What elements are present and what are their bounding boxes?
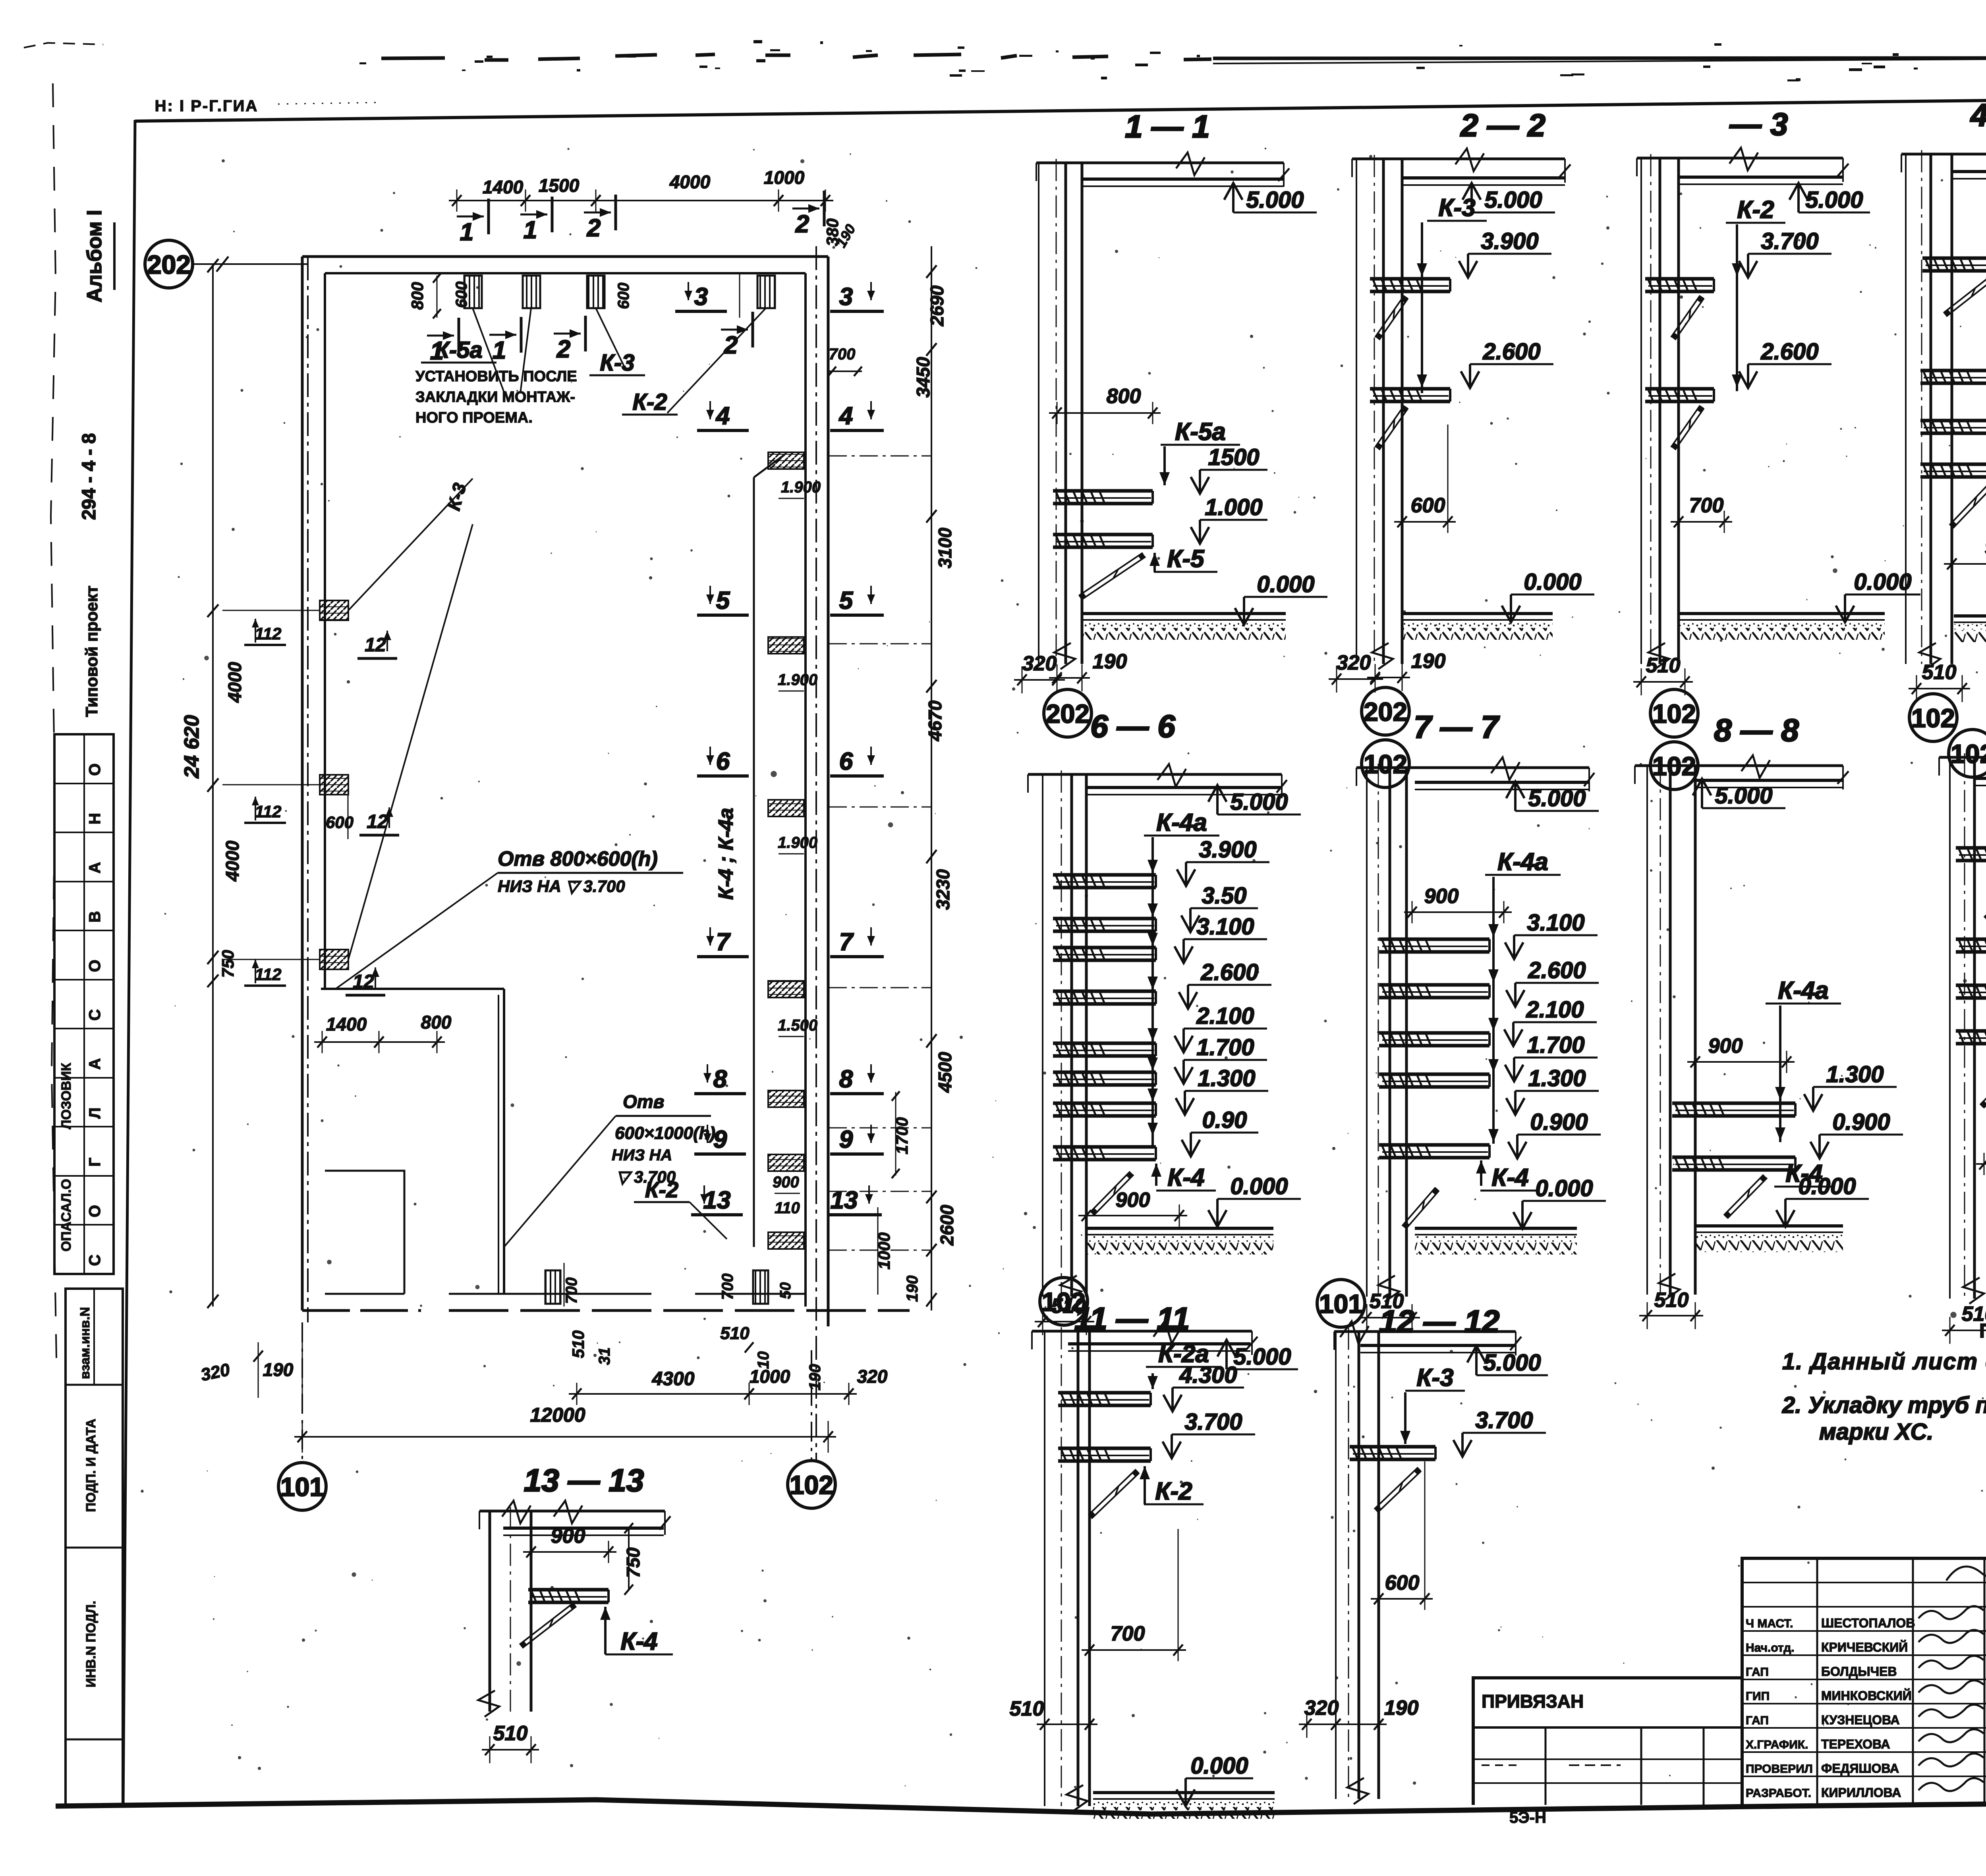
svg-text:3230: 3230 [933,869,953,910]
section 2-2 axis circle 202 [1362,687,1409,735]
svg-text:294 - 4 - 8: 294 - 4 - 8 [79,433,100,520]
svg-text:800: 800 [421,1012,452,1033]
section 1-1 bottom dimension 320 [1014,679,1065,681]
section 8-8 ceiling beam line [1635,764,1843,767]
svg-text:510: 510 [1010,1697,1044,1720]
plan: section cut marks below top wall [458,318,460,353]
section 7-7 slab [1415,781,1589,784]
section 4-4 bracket bar [1920,369,1986,372]
svg-text:190: 190 [1093,650,1127,673]
scan speckles [1225,1056,1228,1060]
svg-text:202: 202 [1046,699,1090,728]
svg-text:ОПАСАЛ.О: ОПАСАЛ.О [59,1179,74,1251]
svg-text:13: 13 [703,1187,731,1214]
svg-text:1.300: 1.300 [1528,1065,1586,1091]
svg-text:1500: 1500 [1208,444,1259,470]
plan: axis circle 202 [145,240,193,288]
svg-text:2 — 2: 2 — 2 [1460,108,1545,143]
section 3-3 slab [1679,176,1843,179]
svg-text:Н: I Р-Г.ГИА: Н: I Р-Г.ГИА [155,97,259,115]
svg-text:К-3: К-3 [1416,1364,1453,1392]
svg-text:ЛОЗОВИК: ЛОЗОВИК [59,1063,74,1129]
svg-text:102: 102 [1951,739,1986,768]
section 11-11 bottom dimension 510 [1037,1724,1097,1725]
svg-text:Ч МАСТ.: Ч МАСТ. [1746,1617,1793,1630]
section 4-4 ground hatch [1954,614,1986,618]
svg-text:2.100: 2.100 [1526,997,1584,1023]
svg-text:Типовой проект: Типовой проект [82,586,101,717]
svg-text:К-4: К-4 [1167,1164,1204,1191]
section 2-2 slab [1402,176,1565,179]
plan: left wall [301,257,304,1310]
svg-text:А: А [86,1058,104,1070]
svg-text:8: 8 [839,1065,853,1093]
svg-text:12000: 12000 [530,1404,585,1426]
section 11-11 leader arrow up [1144,1466,1146,1504]
section 2-2 axis circle 102 [1362,740,1409,787]
svg-text:ТЕРЕХОВА: ТЕРЕХОВА [1821,1737,1890,1751]
section 12-12 leader arrow line [1404,1392,1406,1444]
svg-text:750: 750 [623,1547,643,1578]
plan: bottom wall plates [545,1270,560,1304]
svg-text:— 3: — 3 [1729,106,1788,142]
svg-text:9: 9 [839,1126,853,1153]
section 12-12 bracket bar [1350,1445,1435,1449]
svg-text:101: 101 [280,1472,324,1502]
section 12-12 ceiling beam line [1334,1330,1516,1333]
svg-text:1400: 1400 [483,177,524,197]
section 8-8 leader arrow line [1779,1006,1781,1142]
section 6-6 bracket bar [1053,946,1156,950]
section 12-12 axis circle 101 [1317,1280,1365,1327]
svg-text:К-5а: К-5а [435,337,482,363]
section 1-1 bottom dimension 190 [1049,677,1090,679]
svg-text:К-2: К-2 [1737,196,1774,224]
section 6-6 bracket bar [1053,1102,1156,1105]
svg-text:1000: 1000 [764,167,805,188]
svg-text:0.900: 0.900 [1832,1109,1890,1135]
svg-text:С: С [86,1255,104,1266]
section 11-11 bracket bar [1058,1447,1151,1450]
svg-text:700: 700 [719,1274,736,1300]
svg-text:3.100: 3.100 [1196,914,1254,940]
section 4-4 wall [1905,154,1907,664]
svg-text:4000: 4000 [669,172,711,192]
section 4-4 bracket bar [1920,419,1986,423]
section 3-3 bracket strut [1671,405,1700,447]
sheet frame left border [123,120,135,1805]
svg-text:3100: 3100 [935,527,955,568]
svg-text:700: 700 [829,345,856,363]
section 7-7 bracket strut [1402,1187,1435,1226]
svg-text:102: 102 [1652,699,1696,728]
section 3-3 axis circle 102 [1650,742,1698,789]
svg-text:600: 600 [1385,1571,1420,1594]
section 3-3 ceiling beam line [1637,157,1843,160]
svg-text:К-5: К-5 [1167,545,1205,573]
section 9-9 slab [1974,777,1986,780]
svg-text:3.700: 3.700 [1475,1407,1533,1433]
svg-text:ШЕСТОПАЛОВ: ШЕСТОПАЛОВ [1821,1616,1915,1630]
svg-text:4000: 4000 [222,840,243,882]
stamp bottom boxes (взам.инв., подп. и дата, инв.№) [66,1289,123,1805]
section 1-1 dimension 800 [1049,412,1161,414]
section 7-7 bracket bar [1379,983,1489,987]
section 12-12 bottom dimension 320 [1299,1724,1344,1725]
svg-text:800: 800 [1107,385,1141,408]
section 12-12 dimension 600 [1371,1598,1433,1600]
svg-text:1: 1 [493,337,506,364]
svg-text:0.000: 0.000 [1535,1175,1593,1201]
title block: signature table [1742,1558,1986,1805]
svg-text:5: 5 [839,587,854,614]
svg-text:110: 110 [775,1199,800,1217]
section 13-13 bracket strut [520,1603,574,1644]
section 1-1 wall [1038,163,1039,664]
svg-text:2: 2 [795,210,809,238]
svg-text:К-2: К-2 [632,389,667,415]
title block: signatures squiggles [1918,1606,1984,1619]
svg-text:НИЗ НА: НИЗ НА [612,1146,672,1164]
svg-text:А: А [86,862,104,874]
svg-text:В: В [86,911,104,923]
svg-text:2690: 2690 [927,285,947,326]
svg-text:БОЛДЫЧЕВ: БОЛДЫЧЕВ [1821,1664,1897,1679]
svg-text:5.000: 5.000 [1484,187,1542,213]
svg-text:2.100: 2.100 [1196,1003,1254,1029]
svg-text:3.900: 3.900 [1199,837,1256,863]
svg-text:Отв: Отв [623,1091,664,1112]
svg-text:202: 202 [147,250,191,279]
plan: horizontal leader dash-dot lines to chain [829,455,931,457]
svg-text:1. Данный лист см. совме: 1. Данный лист см. совместно с листом КС… [1782,1349,1986,1374]
svg-text:101: 101 [1319,1289,1363,1318]
svg-text:НИЗ НА ▽ 3.700: НИЗ НА ▽ 3.700 [498,877,625,896]
svg-text:2: 2 [587,214,601,242]
svg-text:5.000: 5.000 [1246,187,1304,213]
svg-text:320: 320 [857,1366,888,1387]
section 13-13 leader arrow up [604,1607,607,1654]
svg-text:5.000: 5.000 [1528,786,1586,811]
section 6-6 bracket bar [1053,917,1156,921]
section 9-9 ceiling beam line [1939,756,1986,759]
svg-text:8: 8 [713,1065,727,1093]
svg-text:УСТАНОВИТЬ ПОСЛЕ: УСТАНОВИТЬ ПОСЛЕ [415,368,577,385]
section 12-12 slab [1360,1344,1516,1347]
plan: left dimension chain 24620 [212,266,214,1307]
svg-text:13 — 13: 13 — 13 [524,1463,644,1498]
svg-text:0.000: 0.000 [1190,1753,1248,1779]
svg-text:1: 1 [524,216,537,244]
svg-text:190: 190 [263,1359,294,1380]
section 7-7 dimension 900 [1404,911,1512,913]
section 6-6 bottom dimension 510 [1035,1321,1094,1322]
svg-text:700: 700 [1689,494,1724,517]
svg-text:2.600: 2.600 [1760,339,1818,365]
section 9-9 bracket strut [1980,1065,1986,1105]
section 11-11 slab [1068,1342,1250,1345]
section 7-7 bracket bar [1379,1073,1489,1076]
section 3-3 bottom dimension 510 [1633,681,1693,683]
section 1-1 slab [1082,178,1284,181]
svg-text:К-2а: К-2а [1158,1340,1209,1368]
section 8-8 ground hatch [1695,1224,1843,1228]
section 9-9 axis circle 102 [1949,730,1986,777]
section 8-8 wall [1646,766,1648,1295]
svg-text:510: 510 [720,1324,750,1343]
svg-text:К-4 ; К-4а: К-4 ; К-4а [715,808,738,900]
svg-text:О: О [86,960,104,972]
svg-text:700: 700 [1111,1622,1145,1645]
title block: привязан box [1473,1678,1742,1805]
svg-text:600: 600 [453,282,470,308]
plan: top wall [302,255,828,258]
section 4-4 bracket strut [1943,274,1986,313]
svg-text:3.700: 3.700 [1184,1409,1242,1435]
svg-text:0.900: 0.900 [1530,1109,1588,1135]
svg-text:102: 102 [1911,703,1955,733]
svg-text:Нач.отд.: Нач.отд. [1746,1641,1795,1654]
svg-text:0.000: 0.000 [1230,1173,1288,1199]
plan: interior partition wall [321,988,504,990]
plan: top dimension row 1400/1500/4000/1000 [449,200,533,201]
plan: axis line from 202 [191,263,308,265]
section 4-4 bracket strut [1949,481,1986,525]
svg-text:202: 202 [1364,697,1407,726]
section 4-4 dimension 900 [1944,563,1986,565]
section 11-11 bracket bar [1058,1391,1151,1395]
section 13-13 bracket bar [528,1588,609,1592]
svg-text:ПРИВЯЗАН: ПРИВЯЗАН [1482,1691,1584,1712]
plan: leader diagonals from left plates to К-3 label [348,479,473,610]
section 1-1 bracket bar [1053,533,1153,537]
svg-text:5.000: 5.000 [1483,1350,1541,1376]
section 9-9 bracket bar [1956,938,1986,941]
svg-text:1500: 1500 [539,175,580,196]
plan: plates along right wall with small dims [768,452,804,469]
svg-text:К-4: К-4 [1491,1164,1528,1191]
svg-text:Л: Л [86,1108,104,1119]
svg-text:5.000: 5.000 [1233,1344,1291,1370]
svg-text:ЗАКЛАДКИ МОНТАЖ-: ЗАКЛАДКИ МОНТАЖ- [415,389,575,405]
svg-text:0.90: 0.90 [1202,1107,1247,1133]
svg-text:190: 190 [904,1276,921,1302]
svg-text:Х.ГРАФИК.: Х.ГРАФИК. [1746,1738,1808,1751]
svg-text:4500: 4500 [935,1052,955,1093]
section 3-3 ground hatch [1679,612,1885,615]
svg-text:5: 5 [716,587,730,614]
section 8-8 bracket strut [1724,1175,1764,1215]
section 1-1 axis circle 202 [1044,689,1092,737]
svg-text:К-4: К-4 [1785,1160,1822,1187]
section 7-7 bracket bar [1379,1143,1489,1147]
svg-text:7: 7 [839,928,854,956]
svg-text:900: 900 [1985,536,1986,559]
svg-text:7: 7 [716,928,731,956]
section 7-7 bracket bar [1379,1031,1489,1035]
svg-text:5.000: 5.000 [1715,783,1772,809]
svg-text:0.000: 0.000 [1257,571,1314,597]
svg-text:600: 600 [1411,494,1445,517]
section 7-7 bracket bar [1379,938,1489,941]
section 6-6 wall [1042,774,1043,1297]
section 9-9 wall [1949,757,1951,1299]
svg-text:3450: 3450 [913,357,933,398]
svg-text:О: О [86,1205,104,1217]
svg-text:МИНКОВСКИЙ: МИНКОВСКИЙ [1821,1689,1912,1703]
svg-text:7 — 7: 7 — 7 [1414,709,1500,745]
section 8-8 bottom dimension 510 [1639,1315,1703,1316]
section 7-7 leader arrow up [1480,1160,1482,1186]
svg-text:2600: 2600 [937,1204,957,1246]
svg-text:2. Укладку труб производи: 2. Укладку труб производить по чертежам [1782,1392,1986,1418]
svg-text:К-2: К-2 [1155,1478,1192,1505]
svg-text:4: 4 [838,402,853,430]
section 3-3 bracket strut [1671,295,1700,337]
stamp approval ladder table [54,734,114,1274]
section 8-8 bracket bar [1672,1102,1795,1105]
svg-text:600: 600 [615,283,632,309]
section 2-2 bracket bar [1370,387,1450,391]
section 13-13 bottom dimension 510 [482,1749,539,1751]
section 4-4 ceiling beam line [1901,153,1986,156]
svg-text:102: 102 [790,1470,833,1500]
section 8-8 slab [1695,779,1843,782]
svg-text:С: С [86,1009,104,1021]
svg-text:К-4а: К-4а [1156,809,1207,836]
section 2-2 ceiling beam line [1352,158,1565,160]
svg-text:700: 700 [563,1278,580,1304]
svg-text:320: 320 [1337,651,1371,674]
section 4-4 bracket bar [1922,257,1986,260]
svg-text:1 — 1: 1 — 1 [1125,109,1209,144]
section 2-2 dimension 600 [1394,521,1456,523]
section 6-6 ground hatch [1086,1227,1273,1230]
section 1-1 bracket bar [1053,489,1153,493]
section 9-9 bracket bar [1956,984,1986,987]
svg-text:Г: Г [86,1158,104,1167]
svg-text:510: 510 [1654,1289,1689,1312]
section 6-6 leader arrow up [1155,1164,1157,1186]
svg-text:ПРОВЕРИЛ: ПРОВЕРИЛ [1746,1762,1813,1776]
plan: left wall plates + 112 marks + 12 labels [320,600,348,620]
section 6-6 bracket bar [1053,1071,1156,1074]
svg-text:ИНВ.N ПОДЛ.: ИНВ.N ПОДЛ. [83,1601,98,1687]
svg-text:3.50: 3.50 [1202,883,1247,909]
section 2-2 bottom dimension 320 [1329,678,1383,680]
svg-text:К-4а: К-4а [1497,848,1548,876]
svg-text:3.700: 3.700 [1761,228,1818,254]
section 11-11 wall [1044,1331,1045,1806]
section 3-3 axis circle 102 [1650,689,1698,737]
plan: interior room bottom-left [325,1171,404,1294]
section 7-7 ground hatch [1415,1227,1577,1230]
svg-text:600: 600 [326,813,354,832]
svg-text:190: 190 [1384,1697,1419,1720]
svg-text:0.000: 0.000 [1524,569,1581,595]
section 11-11 ground hatch [1093,1791,1275,1794]
section 1-1 ground hatch [1082,612,1286,615]
section 2-2 bracket strut [1375,405,1404,447]
section 11-11 bracket strut [1088,1469,1136,1515]
svg-text:К-3: К-3 [600,350,634,376]
svg-text:К-4а: К-4а [1778,977,1829,1004]
svg-text:510: 510 [1922,661,1957,684]
svg-text:ГИП: ГИП [1746,1690,1770,1703]
svg-text:900: 900 [1116,1189,1150,1212]
svg-text:3: 3 [694,283,708,311]
plan: right dimension chain [931,246,932,1310]
svg-text:12: 12 [365,635,386,656]
svg-text:190: 190 [806,1364,824,1391]
svg-text:600×1000(h): 600×1000(h) [615,1123,715,1143]
section 11-11 leader arrow line [1151,1373,1154,1389]
svg-text:ПРИМЕЧАНИЯ:: ПРИМЕЧАНИЯ: [1979,1320,1986,1342]
section 1-1 ceiling beam line [1036,162,1284,164]
sheet frame bottom border [56,1798,1986,1814]
section 6-6 leader arrow line [1151,837,1154,1145]
section 6-6 bracket bar [1053,873,1156,877]
svg-text:102: 102 [1042,1287,1086,1316]
svg-text:320: 320 [1304,1697,1339,1720]
section 6-6 slab [1086,786,1282,789]
section 8-8 dimension 900 [1687,1061,1795,1063]
svg-text:2.600: 2.600 [1482,339,1540,365]
section 6-6 bracket bar [1053,990,1156,993]
section 6-6 bracket strut [1090,1172,1130,1212]
svg-text:6 — 6: 6 — 6 [1090,708,1175,744]
section 9-9 bottom dimension 510 [1942,1330,1986,1331]
plan: section cut marks above top wall [487,199,490,234]
svg-text:КРИЧЕВСКИЙ: КРИЧЕВСКИЙ [1821,1640,1908,1654]
svg-text:190: 190 [1411,650,1446,673]
section 9-9 dimension 900 [1976,1163,1986,1165]
svg-text:3.900: 3.900 [1481,228,1538,254]
sheet frame top border [135,94,1986,121]
svg-text:4: 4 [715,402,730,430]
svg-text:4000: 4000 [224,662,245,703]
svg-text:Отв 800×600(h): Отв 800×600(h) [498,847,658,870]
plan: axis circle 101 [278,1463,326,1510]
svg-text:510: 510 [1646,654,1681,677]
section 7-7 leader arrow line [1492,877,1495,1144]
svg-text:1400: 1400 [326,1014,367,1035]
svg-text:0.000: 0.000 [1854,569,1911,595]
svg-text:900: 900 [773,1173,799,1191]
plan: bottom dim row 4300/1000/320 [569,1393,757,1395]
svg-text:2.600: 2.600 [1200,959,1258,985]
svg-text:13: 13 [831,1187,858,1214]
svg-text:12 — 12: 12 — 12 [1379,1304,1499,1339]
section 2-2 bracket bar [1370,277,1450,281]
section 2-2 leader arrow line [1421,222,1423,393]
svg-text:3.100: 3.100 [1527,910,1584,936]
svg-text:2.600: 2.600 [1528,957,1586,983]
svg-text:1: 1 [460,218,473,246]
section 13-13 wall [489,1511,491,1712]
svg-text:1000: 1000 [750,1366,790,1387]
section 13-13 ceiling beam line [479,1510,665,1513]
svg-text:320: 320 [1022,652,1057,675]
section 11-11 ceiling beam line [1032,1330,1252,1333]
svg-text:510: 510 [493,1722,528,1745]
section 13-13 slab [503,1527,664,1530]
plan: right wall [827,257,830,1326]
section 1-1 bracket strut [1079,553,1143,596]
svg-text:К-4: К-4 [620,1628,657,1655]
svg-text:102: 102 [1364,749,1407,779]
svg-text:1.700: 1.700 [1196,1035,1254,1060]
